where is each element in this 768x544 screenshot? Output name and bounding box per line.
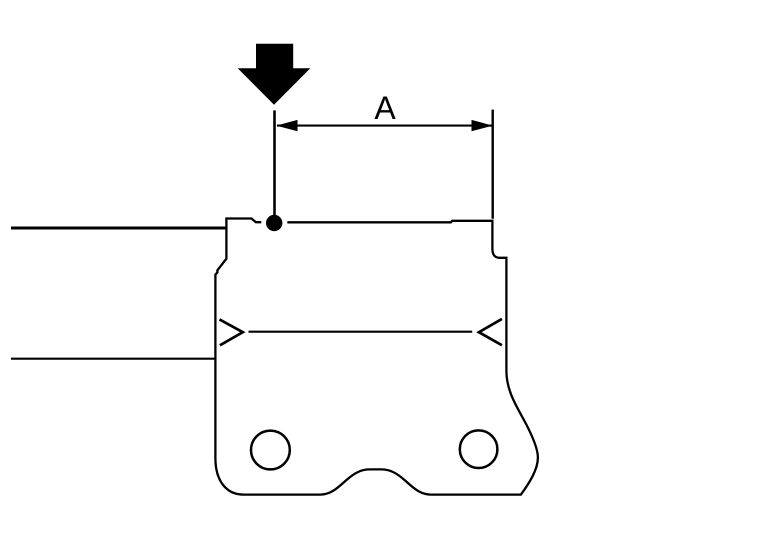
break line — [249, 331, 473, 333]
dimension arrowhead left — [276, 120, 297, 131]
hole right — [460, 430, 498, 468]
svg-text:A: A — [374, 90, 396, 126]
pointer arrow (filled down-arrow) — [238, 44, 311, 105]
break chevron left — [220, 319, 243, 345]
extension line right — [492, 110, 494, 219]
dimension arrowhead right — [472, 120, 493, 131]
wire: upper-left lead line — [11, 227, 228, 230]
bracket outline — [215, 219, 538, 495]
extension line left — [273, 110, 276, 221]
dimension line A — [277, 125, 492, 127]
datum dot — [266, 215, 282, 231]
hole left — [251, 431, 290, 470]
break chevron right — [479, 319, 502, 345]
wire: lower-left lead line — [11, 358, 216, 360]
